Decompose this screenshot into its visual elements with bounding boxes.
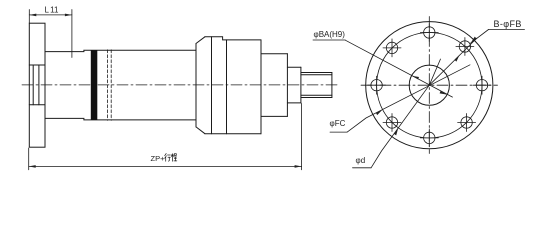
head block bottom [205, 133, 261, 135]
leader phi d [353, 59, 441, 168]
seal groove dashed lines [108, 50, 112, 121]
end view vertical centerline [428, 17, 430, 154]
svg-text:φFC: φFC [330, 119, 346, 128]
bolt hole bottom [420, 129, 438, 147]
cylinder tube top [45, 50, 196, 51]
weld seal block [91, 50, 98, 120]
bolt hole left [368, 76, 386, 94]
head block face [195, 44, 197, 127]
rod collar [287, 67, 301, 103]
svg-text:φBA(H9): φBA(H9) [314, 30, 346, 39]
threaded stud [301, 73, 332, 98]
flange outer circle [366, 22, 493, 149]
head block chamfers [196, 37, 205, 134]
head block top [205, 37, 261, 40]
gland cylinder [261, 54, 287, 117]
centerline side view [22, 84, 337, 86]
label B-phi FB [494, 19, 522, 29]
svg-text:ZP+: ZP+ [151, 154, 166, 163]
svg-text:B-φFB: B-φFB [494, 19, 522, 29]
CJK char cheng [171, 154, 177, 162]
dimension L11 [29, 10, 72, 58]
leader phi FC [330, 65, 470, 132]
head block right face [260, 40, 262, 134]
label phi FC [330, 119, 346, 128]
leader phi BA [313, 40, 453, 97]
bolt circle [377, 32, 482, 137]
dimension ZP+stroke [29, 104, 302, 170]
head block inner lines [212, 37, 227, 134]
flange bore lines [29, 65, 45, 105]
leader B-phi FB [471, 30, 525, 44]
end view horizontal centerline [361, 84, 498, 86]
bolt hole upper-left [383, 39, 401, 57]
CJK char xing [165, 154, 171, 162]
label L11 [45, 5, 60, 14]
svg-text:φd: φd [356, 156, 366, 165]
bolt hole lower-right [458, 114, 476, 132]
bolt hole right [473, 76, 491, 94]
flange plate [29, 23, 45, 147]
bolt hole lower-left [383, 114, 401, 132]
label phi d [356, 156, 366, 165]
label ZP+stroke text [151, 154, 166, 163]
bolt hole upper-right [456, 38, 474, 56]
label phi BA(H9) [314, 30, 346, 39]
bolt hole top [420, 24, 438, 42]
pilot bore circle [409, 65, 449, 105]
cylinder tube bottom [45, 118, 196, 120]
bolt hole dimension line [429, 38, 477, 85]
svg-text:L11: L11 [45, 5, 60, 14]
